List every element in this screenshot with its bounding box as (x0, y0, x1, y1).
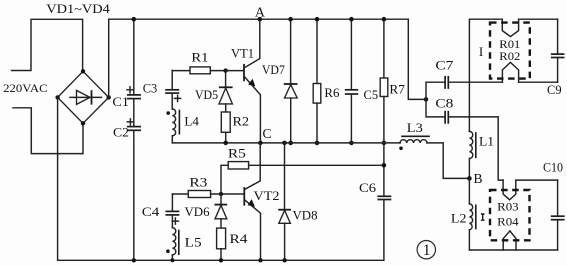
junction R6 node C wire (315, 141, 320, 146)
svg-text:I: I (479, 44, 483, 59)
inductor L1 (469, 131, 494, 178)
svg-text:VT1: VT1 (231, 45, 254, 60)
electrode pair R01/R02 top chevron (502, 19, 518, 36)
capacitor C8 (426, 96, 503, 180)
resistor R2 (221, 112, 249, 143)
svg-text:VT2: VT2 (254, 188, 280, 203)
wire top unit to C9 (519, 18, 558, 20)
svg-text:C7: C7 (435, 59, 453, 73)
junction R7 rail (382, 17, 387, 22)
resistor R3 (172, 175, 244, 197)
svg-text:C5: C5 (364, 88, 379, 102)
junction C5 node C wire (349, 141, 354, 146)
electrode pair R01/R02 bottom chevron (502, 62, 518, 82)
svg-text:R6: R6 (324, 86, 339, 100)
svg-text:C: C (262, 126, 271, 141)
svg-text:220VAC: 220VAC (3, 81, 48, 95)
node C7/C8 tap junction (424, 97, 429, 102)
capacitor C6 (359, 143, 391, 260)
inductor L2 (451, 178, 476, 250)
svg-text:R7: R7 (389, 82, 405, 96)
resistor R1 (172, 51, 243, 74)
diode VD7 (262, 19, 298, 143)
node R3/R5/VD6 (219, 192, 223, 196)
dashed enclosure II (R03 R04) (490, 190, 530, 240)
resistor R6 (313, 19, 339, 143)
svg-text:VD7: VD7 (262, 63, 285, 77)
capacitor C10 (543, 161, 565, 251)
transistor VT2 (244, 143, 279, 260)
wire bottom of lower unit (469, 249, 557, 251)
inductor L3 (399, 121, 429, 150)
diode VD5 (195, 71, 233, 112)
junction VT1 emitter node C (258, 141, 263, 146)
wire DC+ : bridge right vertex up to top rail, rail to right corner (109, 19, 409, 97)
svg-text:R5: R5 (228, 147, 246, 161)
junction C1 top rail (132, 17, 137, 22)
svg-text:R04: R04 (497, 214, 519, 228)
capacitor C2 (113, 119, 141, 260)
svg-text:L4: L4 (184, 114, 199, 128)
svg-text:R2: R2 (233, 114, 250, 128)
capacitor C3 (143, 70, 181, 109)
svg-text:R02: R02 (499, 49, 520, 63)
node C wire: L4 bottom across to L3 (172, 142, 400, 144)
wire transformer primary riser: top wire to L1 (469, 19, 502, 131)
svg-text:R4: R4 (230, 232, 249, 246)
resistor R7 (380, 19, 405, 143)
label winding II (481, 214, 485, 220)
node A (258, 17, 263, 22)
resistor R4 (217, 228, 249, 260)
svg-text:C2: C2 (113, 125, 129, 139)
svg-text:R1: R1 (191, 51, 208, 65)
svg-text:VD8: VD8 (293, 209, 318, 223)
svg-text:L2: L2 (451, 212, 467, 226)
svg-text:C6: C6 (359, 181, 376, 195)
junction R4 bottom rail (219, 258, 223, 262)
capacitor C5 (345, 19, 378, 143)
junction R2 node C (223, 141, 228, 146)
svg-text:B: B (473, 171, 482, 186)
junction VD8 node C (282, 141, 287, 146)
wire AC input live: terminal to bridge top (12, 19, 83, 70)
svg-text:C9: C9 (547, 83, 562, 97)
wire bottom of top unit to C9 (519, 81, 558, 83)
diode VD6 (185, 194, 228, 228)
svg-text:VD5: VD5 (195, 88, 218, 102)
junction VT2 emitter bottom rail (258, 258, 262, 262)
wire top-right corner down to C7/C8 tap (408, 19, 426, 99)
junction R6 rail (315, 17, 320, 22)
junction bridge right vertex (107, 95, 111, 99)
capacitor C4 (142, 194, 180, 228)
junction L5 bottom rail (170, 258, 174, 262)
svg-text:VD1~VD4: VD1~VD4 (46, 1, 110, 16)
junction C2 bottom rail (132, 258, 136, 262)
junction bridge bottom vertex (81, 121, 85, 125)
electrode pair R03/R04 bottom chevron (503, 231, 516, 250)
junction VD8 bottom rail (282, 258, 286, 262)
capacitor C1 (112, 19, 141, 126)
transistor VT1 (231, 19, 260, 143)
svg-text:R03: R03 (497, 199, 519, 213)
svg-text:C10: C10 (543, 161, 563, 175)
bridge rectifier VD1~VD4 (58, 71, 109, 123)
capacitor C9 (547, 19, 564, 97)
svg-text:C4: C4 (142, 205, 160, 219)
svg-text:1: 1 (423, 242, 431, 259)
junction VD7 rail (288, 17, 293, 22)
wire AC input neutral: terminal to bridge bottom (13, 108, 83, 154)
wire to C10 top (516, 179, 558, 181)
svg-text:C3: C3 (143, 81, 158, 95)
diode VD8 (278, 143, 317, 260)
capacitor C7 (426, 59, 502, 100)
svg-text:L5: L5 (185, 236, 202, 250)
figure number circled 1 (417, 241, 435, 260)
svg-text:VD6: VD6 (185, 205, 210, 219)
wire DC- : bridge left vertex down and along bottom rail (58, 97, 384, 260)
inductor L4 (166, 109, 199, 143)
svg-text:L1: L1 (479, 135, 494, 149)
svg-text:C1: C1 (112, 95, 129, 109)
node R1/VD5/VT1 base (223, 68, 227, 72)
svg-text:C8: C8 (435, 96, 453, 110)
wire L3 to node B (427, 143, 469, 179)
svg-text:L3: L3 (407, 121, 423, 135)
junction R5 wire / R7-C6 line (382, 163, 387, 168)
junction bridge top vertex (81, 69, 85, 73)
resistor R5 (221, 147, 384, 194)
dashed enclosure I (R01 R02) (490, 23, 530, 79)
inductor L5 (166, 228, 202, 261)
junction bridge left vertex (55, 95, 59, 99)
node B (467, 176, 472, 181)
junction VD7 node C wire (288, 141, 293, 146)
electrode pair R03/R04 top chevron (503, 180, 516, 200)
junction R7 node C wire (382, 141, 387, 146)
svg-text:A: A (255, 5, 266, 20)
svg-text:R3: R3 (189, 175, 207, 189)
junction C5 rail (349, 17, 354, 22)
